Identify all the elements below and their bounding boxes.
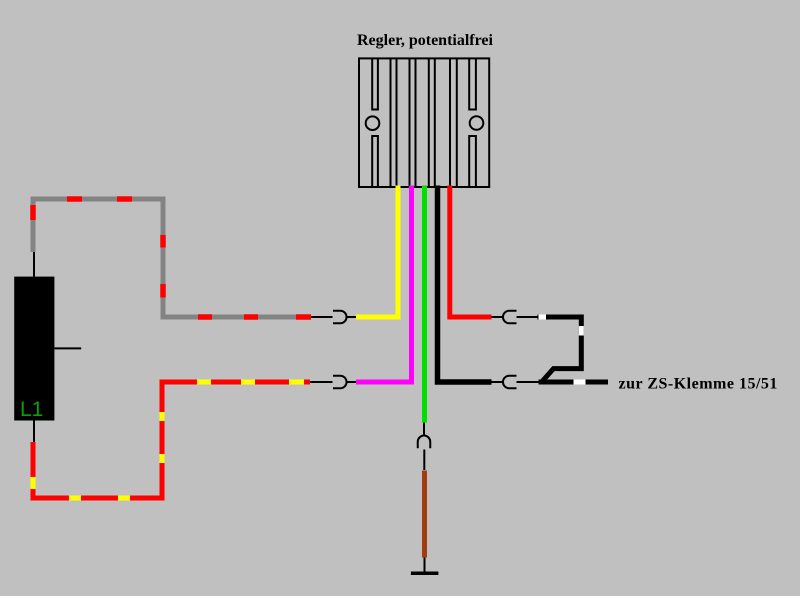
connector X5 (green to brown) <box>418 436 431 449</box>
regulator U1 heatsink fin 3 <box>429 58 435 187</box>
wire: lead from gray wire into L1 top <box>33 252 35 277</box>
lamp L1 block <box>14 277 54 421</box>
wire: black/white harness upper branch to junction <box>538 317 582 381</box>
wire: yellow pigtail from regulator <box>356 186 398 318</box>
regulator U1 lower-left mounting slot <box>372 136 378 187</box>
wire: red/yellow harness wire from L1 to connector <box>33 382 310 498</box>
wire: black pigtail from regulator <box>438 186 492 383</box>
wire: green pigtail from regulator <box>422 186 427 423</box>
wire: yellow dashes on red wire <box>33 382 304 498</box>
wire: lead from connector to brown wire <box>423 450 425 471</box>
regulator U1 heatsink fin 4 <box>450 58 457 187</box>
wire: lead yellow side upper connector <box>347 316 357 318</box>
svg-text:L1: L1 <box>20 398 43 421</box>
svg-text:zur ZS-Klemme 15/51: zur ZS-Klemme 15/51 <box>619 376 778 393</box>
wire: black/white harness lower run to ZS-Klemme <box>539 380 609 385</box>
regulator U1 heatsink fin 2 <box>410 58 416 187</box>
wire: white dashes on black/white wire <box>539 317 586 382</box>
wire: lead black/white side upper-right connector <box>517 316 538 318</box>
ground <box>411 572 439 576</box>
wire: stub lead on L1 right side <box>54 347 81 349</box>
wire: lead magenta side lower-left connector <box>347 381 357 383</box>
wire: red pigtail from regulator <box>450 186 492 318</box>
wire: lead from L1 bottom to red wire <box>33 421 35 443</box>
connector X2 (red/yellow to magenta) <box>333 376 347 389</box>
wire: lead black/white side lower-right connector <box>517 381 541 383</box>
wire: lead red pigtail to upper-right connector <box>492 316 503 318</box>
wire: lead from brown wire to ground <box>424 558 426 573</box>
wire: lead red side lower-left connector <box>310 381 333 383</box>
regulator U1 upper-right mounting slot <box>469 58 476 109</box>
regulator U1 heatsink fin 1 <box>391 58 397 187</box>
wire: gray/red harness wire from L1 to connector <box>33 199 311 317</box>
wire: brown ground wire <box>422 471 427 558</box>
wire: lead gray side upper connector <box>311 316 333 318</box>
wire: red dashes on gray wire <box>33 199 311 317</box>
wire: lead green pigtail to connector <box>423 423 425 436</box>
connector X3 (red to black/white) <box>503 311 517 324</box>
regulator U1 right mounting hole <box>470 116 484 130</box>
connector X4 (black to black/white) <box>503 376 517 389</box>
regulator U1 lower-right mounting slot <box>469 136 476 187</box>
regulator U1 left mounting hole <box>366 116 380 130</box>
regulator U1 body (heatsink outline) <box>359 58 489 187</box>
wire: lead black pigtail to lower-right connector <box>492 381 503 383</box>
wire: magenta pigtail from regulator <box>356 186 412 383</box>
connector X1 (gray to yellow) <box>333 311 347 324</box>
svg-text:Regler, potentialfrei: Regler, potentialfrei <box>357 32 494 49</box>
regulator U1 upper-left mounting slot <box>372 58 378 109</box>
